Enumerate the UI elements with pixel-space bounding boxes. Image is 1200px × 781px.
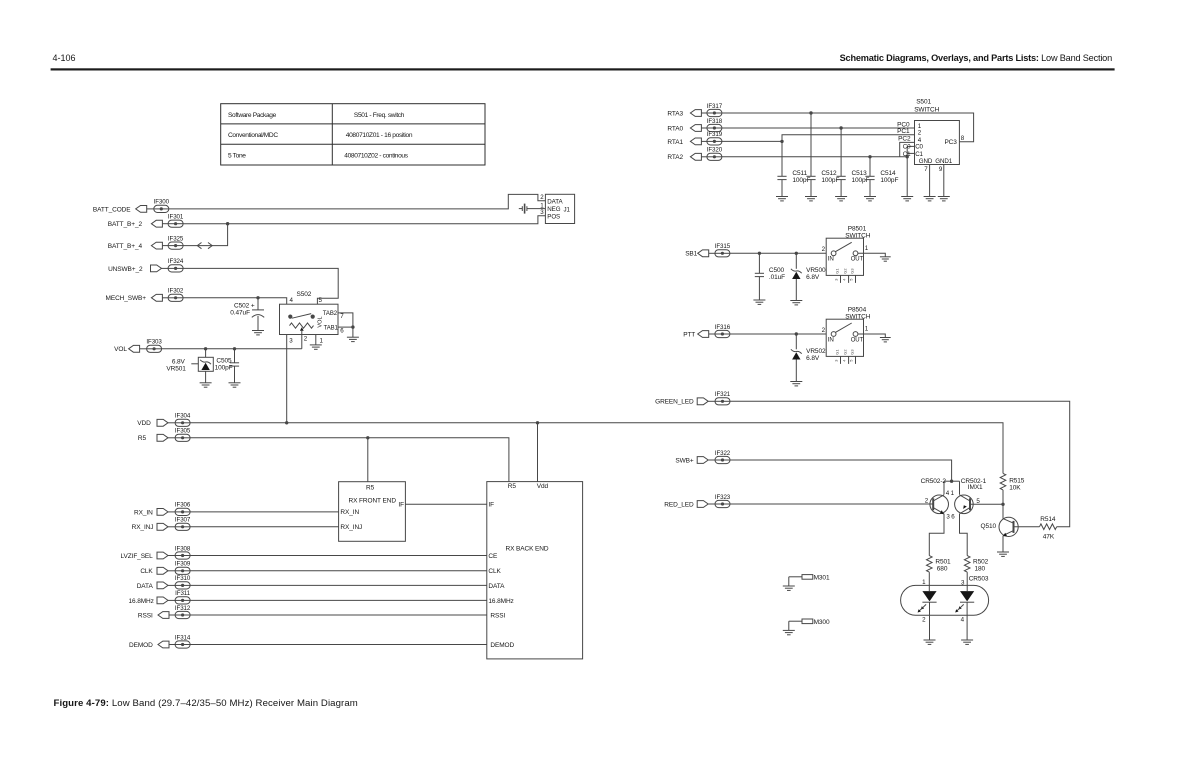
svg-text:DEMOD: DEMOD bbox=[129, 642, 153, 649]
svg-text:DATA: DATA bbox=[547, 199, 563, 206]
svg-text:S502: S502 bbox=[297, 291, 312, 298]
resistor R515 bbox=[1000, 473, 1025, 504]
node C500 tap bbox=[758, 252, 761, 255]
capacitor C512 bbox=[806, 113, 839, 197]
svg-text:IF305: IF305 bbox=[175, 428, 191, 435]
ground below C512 bbox=[805, 197, 817, 201]
ground at S502 tabs bbox=[347, 337, 359, 341]
wire DEMOD bbox=[190, 644, 487, 646]
svg-text:G2: G2 bbox=[842, 268, 847, 273]
wire P8501 OUT to ground bbox=[858, 253, 885, 256]
svg-text:5 Tone: 5 Tone bbox=[228, 153, 246, 160]
svg-text:IF303: IF303 bbox=[146, 339, 162, 346]
ground below VR501 bbox=[200, 383, 212, 387]
svg-text:VOL: VOL bbox=[114, 346, 127, 353]
svg-text:Vdd: Vdd bbox=[537, 483, 549, 490]
connector IF321 GREEN_LED bbox=[655, 391, 731, 406]
wire VOL rail bbox=[162, 348, 302, 350]
svg-text:S501 - Freq. switch: S501 - Freq. switch bbox=[354, 112, 405, 119]
svg-text:100pF: 100pF bbox=[821, 177, 839, 184]
S502 potentiometer element bbox=[290, 316, 324, 328]
svg-text:C505: C505 bbox=[216, 358, 232, 365]
node RTA2-C1 junction bbox=[906, 155, 909, 158]
svg-text:R5: R5 bbox=[366, 484, 375, 491]
ground below C500 bbox=[753, 300, 765, 304]
wire RSSI bbox=[190, 614, 487, 616]
connector IF325 BATT_B+_4 bbox=[108, 235, 184, 250]
svg-text:OUT: OUT bbox=[851, 257, 864, 263]
svg-text:CE: CE bbox=[488, 553, 498, 560]
svg-text:R5: R5 bbox=[138, 435, 147, 442]
svg-text:RX_IN: RX_IN bbox=[134, 509, 153, 516]
svg-text:6.8V: 6.8V bbox=[806, 355, 820, 362]
wire R5 branch to front end bbox=[367, 438, 369, 482]
svg-text:OUT: OUT bbox=[851, 337, 864, 343]
svg-text:IF311: IF311 bbox=[175, 590, 191, 597]
wire RX_INJ bbox=[190, 526, 339, 528]
wire VDD rail bbox=[190, 423, 1003, 474]
svg-text:Schematic Diagrams, Overlays,: Schematic Diagrams, Overlays, and Parts … bbox=[840, 53, 1112, 63]
svg-text:6.8V: 6.8V bbox=[806, 274, 820, 281]
svg-text:C511: C511 bbox=[792, 170, 807, 177]
ground below LED 4 bbox=[961, 640, 973, 644]
svg-text:CLK: CLK bbox=[488, 568, 501, 575]
wire BATT_B+_2 to J1 pin 3 bbox=[183, 209, 545, 224]
capacitor C500 bbox=[755, 253, 785, 300]
svg-text:IF310: IF310 bbox=[175, 575, 191, 582]
connector IF310 DATA bbox=[137, 575, 191, 590]
svg-text:IF304: IF304 bbox=[175, 413, 191, 420]
ground below pin 9 bbox=[938, 197, 950, 201]
svg-text:C0: C0 bbox=[915, 143, 923, 150]
svg-text:47K: 47K bbox=[1043, 534, 1055, 541]
svg-text:TAB1: TAB1 bbox=[324, 325, 339, 331]
ground below C513 bbox=[835, 197, 847, 201]
svg-text:PTT: PTT bbox=[683, 331, 695, 338]
svg-text:SWITCH: SWITCH bbox=[914, 106, 939, 113]
svg-text:4080710Z01 - 16 position: 4080710Z01 - 16 position bbox=[346, 132, 413, 139]
block RX BACK END bbox=[487, 482, 583, 659]
zener VR502 bbox=[791, 334, 826, 382]
connector IF306 RX_IN bbox=[134, 502, 191, 517]
svg-text:J1: J1 bbox=[564, 206, 571, 213]
connector IF303 VOL bbox=[114, 339, 162, 354]
ground below C502 bbox=[252, 331, 264, 335]
svg-text:IF312: IF312 bbox=[175, 605, 191, 612]
svg-text:IF318: IF318 bbox=[707, 118, 723, 125]
svg-text:IF301: IF301 bbox=[168, 214, 184, 221]
figure caption bbox=[54, 698, 358, 709]
svg-text:G2: G2 bbox=[842, 349, 847, 354]
wire node to Q510 collector bbox=[1002, 504, 1004, 518]
svg-text:RTA1: RTA1 bbox=[667, 139, 683, 146]
ground below S502 pin 1 bbox=[310, 345, 322, 349]
connector IF324 UNSWB+_2 bbox=[108, 258, 184, 273]
connector IF316 PTT bbox=[683, 324, 731, 339]
zener VR500 bbox=[791, 253, 826, 300]
svg-text:IF314: IF314 bbox=[175, 634, 191, 641]
svg-text:R5: R5 bbox=[508, 483, 517, 490]
svg-text:VR501: VR501 bbox=[166, 365, 186, 372]
connector IF318 RTA0 bbox=[667, 118, 722, 133]
capacitor C511 bbox=[777, 141, 810, 196]
connector IF323 RED_LED bbox=[664, 494, 731, 509]
ground below M300 bbox=[783, 630, 795, 634]
svg-text:IN: IN bbox=[828, 256, 834, 263]
label C1 outside bbox=[903, 151, 911, 158]
label C0 outside bbox=[903, 143, 911, 150]
svg-text:PC1: PC1 bbox=[897, 128, 910, 135]
node C502 tap bbox=[256, 296, 259, 299]
svg-text:IF309: IF309 bbox=[175, 561, 191, 568]
wire DATA bbox=[190, 584, 487, 586]
node BATT_B+ junction bbox=[226, 222, 229, 225]
capacitor C514 bbox=[865, 157, 898, 197]
wire R5 rail bbox=[190, 438, 509, 482]
wire Q510 emitter to ground bbox=[1002, 536, 1004, 552]
ground below M301 bbox=[783, 586, 795, 590]
svg-text:MECH_SWB+: MECH_SWB+ bbox=[106, 295, 147, 302]
connector IF300 BATT_CODE bbox=[93, 199, 170, 214]
svg-text:10K: 10K bbox=[1009, 485, 1021, 492]
node VR502 tap bbox=[795, 332, 798, 335]
connector IF320 RTA2 bbox=[667, 147, 722, 162]
test point M300 bbox=[789, 619, 830, 631]
svg-text:RX_IN: RX_IN bbox=[340, 509, 359, 516]
wire RTA1 bbox=[722, 140, 782, 142]
svg-text:RSSI: RSSI bbox=[138, 612, 153, 619]
svg-text:R501: R501 bbox=[935, 559, 951, 566]
svg-text:UNSWB+_2: UNSWB+_2 bbox=[108, 266, 143, 273]
transistor CR502-1 bbox=[951, 478, 987, 521]
svg-text:RX FRONT END: RX FRONT END bbox=[349, 497, 397, 504]
svg-text:PC2: PC2 bbox=[898, 136, 911, 143]
S502 wiper arrow bbox=[300, 327, 304, 349]
connector IF319 RTA1 bbox=[667, 131, 722, 146]
svg-text:RSSI: RSSI bbox=[490, 612, 505, 619]
label PC0 bbox=[897, 121, 910, 128]
svg-text:SWB+: SWB+ bbox=[675, 457, 694, 464]
connector IF317 RTA3 bbox=[667, 103, 722, 118]
connector IF315 SB1 bbox=[685, 243, 731, 258]
ground below C511 bbox=[776, 197, 788, 201]
wire SWB+ to bases bbox=[730, 460, 952, 481]
svg-text:100pF: 100pF bbox=[852, 177, 870, 184]
svg-text:IF306: IF306 bbox=[175, 502, 191, 509]
svg-text:IF321: IF321 bbox=[715, 391, 731, 398]
resistor R501 bbox=[927, 556, 952, 592]
wire 16.8MHz bbox=[190, 599, 487, 601]
node VDD-S502 junction bbox=[285, 421, 288, 424]
connector IF305 R5 bbox=[138, 428, 191, 443]
svg-text:NEG: NEG bbox=[547, 206, 560, 213]
wire BATT_CODE to J1 pin 2 bbox=[169, 194, 546, 209]
svg-text:IF: IF bbox=[398, 502, 404, 509]
wire S501 pin 9 to ground bbox=[939, 165, 944, 197]
svg-text:VR500: VR500 bbox=[806, 267, 826, 274]
node C505 tap bbox=[233, 347, 236, 350]
wire MECH_SWB+ to S502 pin 4 bbox=[183, 298, 287, 304]
connector IF314 DEMOD bbox=[129, 634, 191, 649]
wire RED_LED lead bbox=[730, 503, 933, 505]
svg-text:5: 5 bbox=[848, 279, 853, 281]
wire S501 C0/C1 to ground bbox=[907, 146, 914, 196]
connector IF311 16.8MHz bbox=[128, 590, 190, 605]
wire BATT_B+_4 link bbox=[183, 224, 228, 246]
node VR501 tap bbox=[204, 347, 207, 350]
svg-text:TAB2: TAB2 bbox=[323, 311, 338, 317]
node VR500 tap bbox=[795, 252, 798, 255]
svg-text:IF320: IF320 bbox=[707, 147, 723, 154]
zener VR501 bbox=[166, 349, 213, 383]
svg-text:PC3: PC3 bbox=[944, 139, 957, 146]
wire CR502-2 emitter to R501 bbox=[929, 514, 944, 556]
svg-text:BATT_B+_4: BATT_B+_4 bbox=[108, 243, 143, 250]
svg-text:IF316: IF316 bbox=[715, 324, 731, 331]
wire LVZIF_SEL bbox=[190, 555, 487, 557]
wire RTA0 to S501 pin 1 bbox=[722, 127, 915, 129]
resistor R514 bbox=[1014, 516, 1057, 540]
svg-text:RTA2: RTA2 bbox=[667, 154, 683, 161]
svg-text:POS: POS bbox=[547, 214, 560, 221]
svg-text:RX_INJ: RX_INJ bbox=[132, 524, 154, 531]
svg-text:16.8MHz: 16.8MHz bbox=[128, 598, 153, 605]
wire RTA1 to S501 pin 2 bbox=[782, 135, 915, 142]
connector IF309 CLK bbox=[140, 561, 191, 576]
svg-text:IF: IF bbox=[488, 502, 494, 509]
connector IF308 LVZIF_SEL bbox=[120, 545, 190, 560]
ground below LED 2 bbox=[924, 640, 936, 644]
label PC1 bbox=[897, 128, 910, 135]
dual LED CR503 package bbox=[901, 579, 989, 623]
svg-text:IMX1: IMX1 bbox=[968, 484, 983, 491]
svg-text:IF308: IF308 bbox=[175, 545, 191, 552]
svg-text:C1: C1 bbox=[915, 151, 923, 158]
node base rail junction bbox=[950, 480, 953, 483]
svg-text:C512: C512 bbox=[821, 170, 837, 177]
svg-text:BATT_B+_2: BATT_B+_2 bbox=[108, 221, 143, 228]
capacitor C505 bbox=[215, 349, 240, 383]
svg-text:IF307: IF307 bbox=[175, 517, 191, 524]
svg-text:R515: R515 bbox=[1009, 477, 1025, 484]
svg-text:C500: C500 bbox=[769, 267, 785, 274]
svg-text:0.47uF: 0.47uF bbox=[230, 310, 250, 317]
svg-text:RX BACK END: RX BACK END bbox=[506, 545, 549, 552]
svg-text:C0: C0 bbox=[903, 143, 911, 150]
resistor R502 bbox=[964, 556, 988, 592]
label PC2 bbox=[898, 136, 911, 143]
svg-text:DATA: DATA bbox=[488, 583, 505, 590]
S502 TAB1 label bbox=[324, 325, 345, 334]
svg-text:DATA: DATA bbox=[137, 583, 154, 590]
ground at P8501 OUT bbox=[880, 257, 891, 261]
svg-text:G3: G3 bbox=[849, 268, 854, 273]
capacitor C513 bbox=[837, 128, 870, 197]
wire S502 pin 1 to ground bbox=[315, 335, 317, 345]
svg-text:DEMOD: DEMOD bbox=[490, 642, 514, 649]
transistor Q510 bbox=[980, 517, 1018, 536]
wire RTA3 to S501 pin 8 bbox=[722, 113, 974, 142]
ground at P8504 OUT bbox=[880, 338, 891, 342]
switch P8501 bbox=[822, 226, 871, 283]
wire IF link bbox=[405, 503, 486, 505]
svg-text:IF317: IF317 bbox=[707, 103, 723, 110]
wire RX_IN bbox=[190, 511, 339, 513]
capacitor C502 bbox=[230, 298, 264, 331]
block RX FRONT END bbox=[339, 482, 406, 542]
LED green element bbox=[918, 591, 937, 640]
svg-text:VDD: VDD bbox=[137, 420, 151, 427]
svg-text:G1: G1 bbox=[834, 268, 839, 273]
wire CR502-1 base to node bbox=[970, 503, 1003, 505]
wire CR502-1 emitter to R502 bbox=[960, 514, 968, 556]
svg-text:R514: R514 bbox=[1040, 516, 1056, 523]
svg-text:R502: R502 bbox=[973, 559, 989, 566]
svg-text:C514: C514 bbox=[880, 170, 896, 177]
ground below Q510 bbox=[997, 552, 1009, 556]
svg-text:RTA0: RTA0 bbox=[667, 125, 683, 132]
svg-text:180: 180 bbox=[975, 566, 986, 573]
node C512 tap bbox=[809, 111, 812, 114]
svg-text:G3: G3 bbox=[849, 349, 854, 354]
connector IF302 MECH_SWB+ bbox=[106, 288, 184, 303]
switch S502 body bbox=[280, 291, 339, 345]
wire SB1 to P8501 bbox=[730, 252, 826, 254]
svg-text:Q510: Q510 bbox=[980, 523, 996, 530]
svg-text:VOL: VOL bbox=[318, 316, 324, 327]
wire S502 TAB2/TAB1 to ground bbox=[338, 313, 355, 337]
ground below C0/C1 bbox=[901, 197, 913, 201]
wire P8504 OUT to ground bbox=[858, 334, 885, 338]
options table bbox=[221, 104, 485, 165]
connector IF322 SWB+ bbox=[675, 450, 730, 465]
header rule bbox=[51, 68, 1115, 70]
svg-text:IN: IN bbox=[828, 336, 834, 343]
node R5 branch junction bbox=[366, 436, 369, 439]
svg-text:IF319: IF319 bbox=[707, 131, 723, 138]
node C513 tap bbox=[839, 126, 842, 129]
svg-text:RX_INJ: RX_INJ bbox=[340, 524, 362, 531]
svg-text:16.8MHz: 16.8MHz bbox=[488, 598, 513, 605]
svg-text:GND: GND bbox=[919, 158, 933, 165]
svg-text:CR502-2: CR502-2 bbox=[921, 478, 947, 485]
ground below pin 7 bbox=[924, 197, 936, 201]
wire S502 pin 3 down to VDD rail bbox=[286, 335, 288, 423]
svg-text:Software Package: Software Package bbox=[228, 112, 277, 119]
switch P8504 bbox=[822, 307, 871, 364]
svg-text:6.8V: 6.8V bbox=[172, 358, 186, 365]
node R515-Q510 junction bbox=[1001, 503, 1004, 506]
svg-text:M301: M301 bbox=[814, 574, 830, 581]
wire RTA2 bbox=[722, 156, 907, 158]
svg-text:S501: S501 bbox=[916, 99, 931, 106]
connector IF312 RSSI bbox=[138, 605, 191, 620]
svg-text:G1: G1 bbox=[834, 349, 839, 354]
svg-text:IF322: IF322 bbox=[715, 450, 731, 457]
svg-text:SWITCH: SWITCH bbox=[845, 232, 870, 239]
cable marker arrows on BATT_B+_4 bbox=[197, 243, 212, 249]
connector IF304 VDD bbox=[137, 413, 191, 428]
svg-text:C1: C1 bbox=[903, 151, 911, 158]
svg-text:IF300: IF300 bbox=[154, 199, 170, 206]
svg-text:100pF: 100pF bbox=[880, 177, 898, 184]
svg-text:.01uF: .01uF bbox=[769, 274, 785, 281]
svg-text:Conventional/MDC: Conventional/MDC bbox=[228, 132, 278, 139]
svg-text:680: 680 bbox=[937, 566, 948, 573]
wire collector rail bbox=[944, 481, 960, 494]
wire RTA2 to S501 pin 4 bbox=[900, 142, 915, 156]
svg-text:SWITCH: SWITCH bbox=[845, 313, 870, 320]
connector J1 bbox=[545, 194, 574, 223]
node VDD-Vdd junction bbox=[536, 421, 539, 424]
svg-text:IF302: IF302 bbox=[168, 288, 184, 295]
ground below VR500 bbox=[790, 301, 802, 305]
svg-text:M300: M300 bbox=[814, 619, 830, 626]
svg-text:IF315: IF315 bbox=[715, 243, 731, 250]
header title bbox=[840, 53, 1112, 63]
LED red element bbox=[955, 591, 974, 640]
svg-text:CLK: CLK bbox=[140, 568, 153, 575]
svg-text:CR503: CR503 bbox=[969, 576, 989, 583]
ground below C514 bbox=[864, 197, 876, 201]
svg-text:100pF: 100pF bbox=[792, 177, 810, 184]
svg-text:BATT_CODE: BATT_CODE bbox=[93, 206, 131, 213]
ground below VR502 bbox=[790, 382, 802, 386]
svg-text:C502 +: C502 + bbox=[234, 302, 255, 309]
node C514 tap bbox=[868, 155, 871, 158]
switch S501 body bbox=[914, 99, 959, 165]
test point M301 bbox=[789, 574, 830, 586]
svg-text:VR502: VR502 bbox=[806, 348, 826, 355]
svg-text:IF323: IF323 bbox=[715, 494, 731, 501]
svg-text:IF324: IF324 bbox=[168, 258, 184, 265]
svg-text:3: 3 bbox=[833, 360, 838, 362]
ground below C505 bbox=[229, 383, 241, 387]
svg-text:4-106: 4-106 bbox=[53, 53, 76, 63]
wire GREEN_LED to R514 bbox=[730, 401, 1070, 526]
svg-text:5: 5 bbox=[848, 360, 853, 362]
svg-text:3: 3 bbox=[833, 279, 838, 281]
wire UNSWB+_2 to S502 pin 5 bbox=[183, 268, 338, 304]
S502 TAB2 label bbox=[323, 311, 345, 320]
battery symbol at J1 NEG bbox=[519, 202, 546, 213]
connector IF301 BATT_B+_2 bbox=[108, 214, 184, 229]
connector IF307 RX_INJ bbox=[132, 517, 191, 532]
svg-text:100pF: 100pF bbox=[215, 365, 233, 372]
transistor CR502-2 bbox=[921, 478, 951, 521]
S502 switch contacts bbox=[288, 314, 315, 319]
svg-text:SB1: SB1 bbox=[685, 251, 697, 258]
page number header bbox=[53, 53, 76, 63]
svg-text:GREEN_LED: GREEN_LED bbox=[655, 399, 694, 406]
svg-text:RTA3: RTA3 bbox=[667, 110, 683, 117]
node C511 tap bbox=[780, 140, 783, 143]
svg-text:4080710Z02 - continous: 4080710Z02 - continous bbox=[344, 153, 408, 160]
wire CLK bbox=[190, 570, 487, 572]
svg-text:IF325: IF325 bbox=[168, 235, 184, 242]
wire S501 pin 7 to ground bbox=[924, 165, 929, 197]
svg-text:GND1: GND1 bbox=[935, 158, 952, 165]
svg-text:LVZIF_SEL: LVZIF_SEL bbox=[120, 553, 153, 560]
svg-text:RED_LED: RED_LED bbox=[664, 501, 694, 508]
svg-text:Figure 4-79: Low Band (29.7–42: Figure 4-79: Low Band (29.7–42/35–50 MHz… bbox=[54, 698, 358, 709]
svg-text:C513: C513 bbox=[852, 170, 868, 177]
label CR503 bbox=[969, 576, 989, 583]
wire PTT to P8504 bbox=[730, 333, 826, 335]
wire Vdd drop bbox=[537, 423, 539, 482]
